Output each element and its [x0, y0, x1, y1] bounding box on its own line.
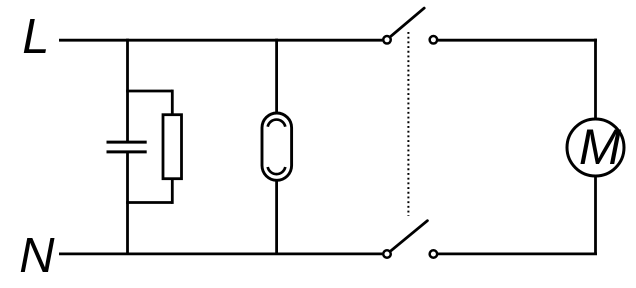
svg-text:M: M: [579, 118, 622, 175]
wire right side vertical upper: [594, 39, 597, 120]
wire RC branch vertical lower: [126, 153, 129, 254]
resistor R1 body: [163, 115, 182, 179]
switch S1a left contact: [383, 36, 391, 44]
switch S1b left contact: [383, 250, 391, 258]
wire top rail right segment: [438, 39, 597, 42]
wire resistor branch upper vertical: [171, 90, 174, 115]
switch S1b lever: [390, 221, 427, 252]
lamp E1 top electrode: [268, 120, 286, 127]
capacitor C1 bottom plate: [107, 150, 147, 153]
wire lamp branch vertical upper: [275, 39, 278, 114]
lamp E1 neon envelope: [262, 113, 292, 180]
switch S1a lever: [390, 8, 424, 37]
wire RC branch vertical upper: [126, 39, 129, 142]
wire lamp branch vertical lower: [275, 180, 278, 254]
svg-text:L: L: [22, 10, 49, 64]
lamp E1 bottom electrode: [268, 167, 286, 174]
wire resistor branch lower vertical: [171, 179, 174, 204]
wire N bottom rail left segment: [59, 252, 382, 255]
svg-text:N: N: [19, 229, 55, 283]
switch S1b right contact: [430, 250, 438, 258]
capacitor C1 top plate: [107, 141, 147, 144]
wire resistor branch top horizontal: [126, 90, 172, 93]
wire right side vertical lower: [594, 176, 597, 254]
wire resistor branch bottom horizontal: [126, 201, 172, 204]
wire L top rail left segment: [59, 39, 382, 42]
motor M1 circle: [567, 119, 624, 176]
switch S1a right contact: [430, 36, 438, 44]
switch mechanical link dotted line: [407, 32, 409, 216]
wire bottom rail right segment: [438, 252, 597, 255]
